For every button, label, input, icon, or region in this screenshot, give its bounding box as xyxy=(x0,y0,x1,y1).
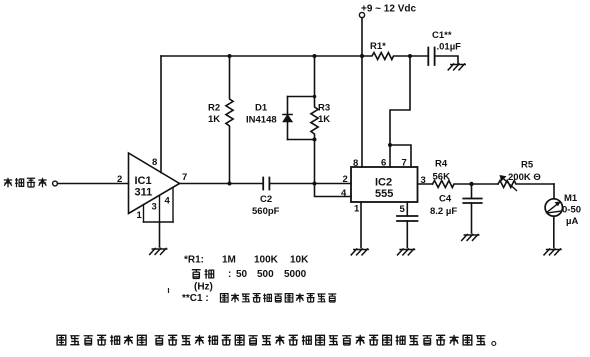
svg-text:56K: 56K xyxy=(433,172,451,183)
svg-text:M1: M1 xyxy=(564,193,578,204)
rheostat R5 200K xyxy=(498,181,554,188)
junction: R1 right node xyxy=(408,54,412,58)
wire: node to pin 7 xyxy=(390,145,411,167)
svg-text:100K: 100K xyxy=(254,255,279,266)
wire: C4 to ground xyxy=(471,203,473,233)
svg-text:D1: D1 xyxy=(255,103,268,114)
svg-text:C2: C2 xyxy=(260,194,272,205)
svg-text:**C1 :: **C1 : xyxy=(182,293,209,304)
svg-text:0-50: 0-50 xyxy=(562,205,581,216)
wire: IC1 pin 4 stub xyxy=(172,188,174,223)
svg-text:311: 311 xyxy=(135,187,153,199)
wire: node down to C4 xyxy=(471,184,473,198)
wire: IC2 pin 3 out xyxy=(418,183,433,185)
caption: bottom CJK sentence (drawn) xyxy=(57,335,496,346)
svg-text:7: 7 xyxy=(402,158,407,169)
meter M1 0-50uA xyxy=(545,199,562,216)
junction: rail meets supply xyxy=(360,54,364,58)
node: +V supply terminal xyxy=(359,12,364,17)
svg-text:8: 8 xyxy=(152,157,157,168)
wire: input to IC1 pin 2 xyxy=(58,183,129,185)
wire: top V+ rail xyxy=(161,55,362,57)
junction: R2 bottom on output wire xyxy=(228,182,232,186)
svg-text:*R1:: *R1: xyxy=(184,255,204,266)
resistor R1 (horizontal) xyxy=(362,53,410,60)
wire: IC1 bus to ground xyxy=(159,222,161,247)
wire: node to pin 6 xyxy=(389,145,391,167)
svg-text:5: 5 xyxy=(400,204,406,215)
note: range row (CJK drawn) xyxy=(192,270,201,279)
wire: R5 to meter xyxy=(553,184,555,199)
wire: supply vertical to IC2 pin 8 xyxy=(361,18,363,167)
caption period xyxy=(492,342,496,346)
wire: IC1 pin 8 from V+ rail xyxy=(160,56,162,173)
svg-text:R4: R4 xyxy=(435,159,448,170)
label: audio input (CJK drawn) xyxy=(4,178,47,188)
junction: branch joins pin2 wire xyxy=(313,182,317,186)
svg-text:1K: 1K xyxy=(208,114,220,125)
note table xyxy=(169,255,337,305)
ground: IC2 pin 1 xyxy=(351,249,368,255)
svg-text:IC2: IC2 xyxy=(375,177,392,189)
svg-text:3: 3 xyxy=(421,175,426,186)
svg-text:555: 555 xyxy=(375,188,393,200)
svg-text:4: 4 xyxy=(341,188,347,199)
capacitor C1 .01uF plates xyxy=(428,48,434,66)
node: audio input terminal xyxy=(53,181,58,186)
wires and symbols drawn below xyxy=(53,12,563,255)
svg-text:560pF: 560pF xyxy=(252,206,280,217)
svg-text:5000: 5000 xyxy=(284,269,307,280)
svg-text:R2: R2 xyxy=(208,103,220,114)
svg-text:3: 3 xyxy=(152,202,157,213)
svg-text:2: 2 xyxy=(117,174,122,185)
svg-text:50: 50 xyxy=(236,269,248,280)
svg-text:IC1: IC1 xyxy=(135,175,152,187)
svg-text:4: 4 xyxy=(165,196,171,207)
junction: D1 top stub xyxy=(313,95,317,99)
svg-text:C4: C4 xyxy=(439,194,452,205)
diode D1 IN4148 (cathode up) xyxy=(283,97,292,140)
svg-text:200K Θ: 200K Θ xyxy=(508,172,541,183)
svg-text:R3: R3 xyxy=(318,103,330,114)
svg-text:1: 1 xyxy=(354,204,360,215)
svg-text:2: 2 xyxy=(343,174,348,185)
wire: branch down to IC2 pin 4 xyxy=(315,184,352,197)
capacitor C2 560pF plates xyxy=(263,178,269,190)
ground: C4 xyxy=(462,234,479,240)
wire: IC1 pin 3 stub xyxy=(159,196,161,223)
svg-text:8: 8 xyxy=(353,158,358,169)
svg-text:µA: µA xyxy=(566,216,578,227)
junction: R2 top xyxy=(228,54,232,58)
wire: pin5 cap to ground xyxy=(406,221,408,248)
junction: D1 bottom stub xyxy=(313,138,317,142)
ground: IC1 xyxy=(150,248,167,254)
wire: IC2 pin 1 to ground xyxy=(360,202,362,248)
svg-text:10K: 10K xyxy=(290,255,309,266)
ground: C1 xyxy=(448,64,465,70)
ground: pin 5 cap xyxy=(398,249,415,255)
capacitor C4 8.2uF plates xyxy=(463,199,481,204)
svg-text:C1**: C1** xyxy=(432,30,452,41)
svg-text:6: 6 xyxy=(381,158,386,169)
wire: C2 to IC2 pin 2 xyxy=(269,183,351,185)
svg-text:.01µF: .01µF xyxy=(437,42,462,53)
wire: IC2 pin 5 to cap xyxy=(406,202,408,216)
wire: meter to ground xyxy=(553,216,555,247)
junction: pin6/7 node xyxy=(388,143,392,147)
ground: meter xyxy=(544,249,561,255)
wire: R1 node jog down to 555 pins 6,7 xyxy=(390,56,410,145)
wire: IC1 output pin 7 to C2 xyxy=(180,183,264,185)
wire: IC1 pin 1 stub xyxy=(143,205,145,223)
wire: node to R5 xyxy=(472,183,499,185)
wire: C1 to ground xyxy=(435,56,458,64)
svg-text:IN4148: IN4148 xyxy=(246,115,277,126)
svg-text:(Hz): (Hz) xyxy=(194,282,213,293)
capacitor C5 at pin 5 xyxy=(397,216,418,221)
svg-text::: : xyxy=(228,269,231,280)
wire: D1 bottom stub xyxy=(288,139,315,141)
svg-text:R1*: R1* xyxy=(370,41,386,52)
svg-text:R5: R5 xyxy=(521,160,534,171)
op-amp IC1 (311 comparator) triangle xyxy=(129,153,180,214)
svg-text:+9 ~ 12 Vdc: +9 ~ 12 Vdc xyxy=(361,4,416,15)
junction: branch top on rail xyxy=(313,54,317,58)
resistor R2 1K (vertical) xyxy=(226,56,233,184)
svg-text:500: 500 xyxy=(257,269,274,280)
svg-text:7: 7 xyxy=(182,172,187,183)
stray mark xyxy=(168,288,170,293)
wire: R3/D1 branch vertical from rail xyxy=(311,56,318,184)
svg-text:1: 1 xyxy=(137,210,143,221)
wire: D1 top stub xyxy=(288,96,315,98)
wire: IC1 ground bus xyxy=(144,221,174,223)
svg-text:8.2 µF: 8.2 µF xyxy=(430,206,457,217)
timer IC2 555 body xyxy=(351,167,418,202)
rheostat arrow R5 xyxy=(503,178,517,191)
wire: node to C1 xyxy=(410,55,428,57)
svg-text:1K: 1K xyxy=(318,114,330,125)
svg-text:1M: 1M xyxy=(222,255,236,266)
resistor R4 56K xyxy=(433,181,472,188)
junction: R4/C4/R5 node xyxy=(469,182,473,186)
